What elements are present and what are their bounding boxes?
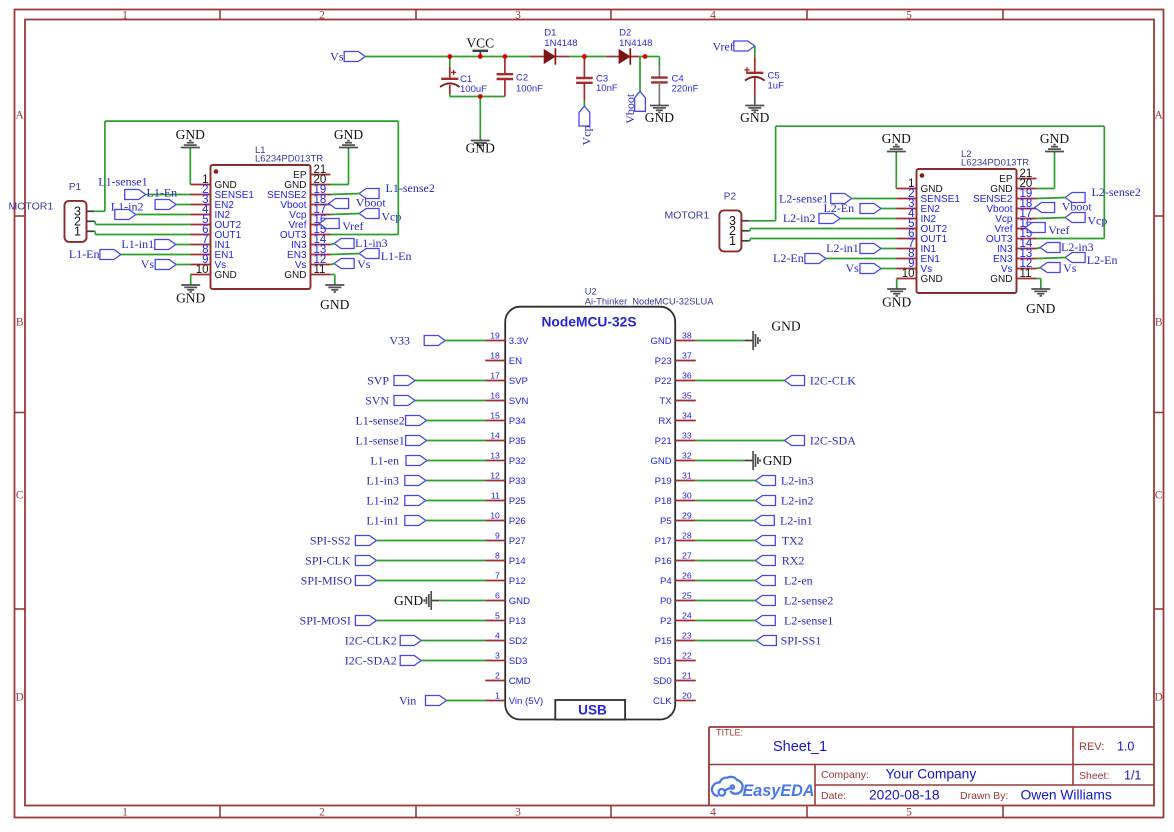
svg-text:Vboot: Vboot	[623, 93, 637, 124]
svg-text:Vin: Vin	[399, 694, 416, 708]
L1 pin 21 EP	[293, 164, 330, 181]
svg-text:Company:: Company:	[821, 769, 869, 781]
wire C3 node to D2 anode	[584, 56, 605, 58]
wire P1 pin3 riser to top loop	[94, 121, 105, 211]
ground at U2 pin 32	[696, 451, 792, 470]
svg-text:P12: P12	[509, 576, 526, 587]
net flag Vref at L2 pin 16	[1025, 223, 1069, 238]
L1 pin 6 OUT1	[191, 224, 242, 241]
net flag TX2 at U2 pin 28	[696, 534, 804, 548]
svg-text:I2C-CLK2: I2C-CLK2	[345, 634, 397, 648]
svg-text:1N4148: 1N4148	[619, 38, 652, 49]
U2 pin 14 P35	[485, 431, 526, 447]
net flag L2-in2 at L2 pin 4	[783, 211, 897, 225]
U2 pin 8 P14	[485, 551, 526, 567]
net flag L2-in2 at U2 pin 30	[696, 494, 814, 508]
L1 pin 18 Vboot	[280, 194, 330, 211]
L1 pin 7 IN1	[191, 234, 231, 251]
net flag L1-En at L1 pin 8	[69, 247, 191, 261]
title block sheet name Sheet_1	[773, 739, 827, 755]
U2 pin 36 P22	[655, 371, 696, 387]
svg-text:SD0: SD0	[653, 676, 672, 687]
svg-text:GND: GND	[394, 593, 423, 608]
L2 pin 3 EN2	[897, 198, 941, 215]
net flag Vboot	[623, 91, 646, 124]
U2 pin 9 P27	[485, 531, 526, 547]
svg-text:34: 34	[682, 411, 692, 421]
capacitor C2 100nF	[497, 57, 544, 97]
svg-text:Vboot: Vboot	[1062, 200, 1093, 214]
svg-text:U2: U2	[585, 286, 597, 296]
wire D1 cathode to C3 node	[569, 56, 584, 58]
svg-text:3: 3	[515, 10, 521, 22]
svg-text:L2-in1: L2-in1	[826, 241, 859, 255]
svg-text:L2-sense1: L2-sense1	[784, 614, 833, 628]
svg-text:VCC: VCC	[466, 36, 494, 51]
net flag L2-in3 at L2 pin 14	[1037, 240, 1094, 254]
U2 pin 34 RX	[658, 411, 695, 427]
svg-text:TX: TX	[659, 396, 672, 407]
svg-text:Sheet_1: Sheet_1	[773, 739, 827, 755]
wire L1 pin1 to upper ground	[189, 149, 191, 185]
svg-text:L2-sense2: L2-sense2	[1092, 185, 1141, 199]
svg-text:1: 1	[495, 691, 500, 701]
svg-text:USB: USB	[578, 703, 607, 718]
L2 pin 19 SENSE2	[973, 188, 1036, 205]
wire L1 pin20 to upper ground	[331, 149, 349, 185]
svg-text:10: 10	[902, 268, 915, 280]
P1 pin 2	[74, 215, 94, 229]
U2 pin 29 P5	[660, 511, 696, 527]
svg-text:Vs: Vs	[845, 261, 859, 275]
svg-text:1: 1	[729, 234, 736, 248]
wire P2 pin1 to L2 OUT1	[749, 239, 897, 241]
L2 pin 12 Vs	[1001, 258, 1037, 275]
L2 pin 20 GND	[990, 178, 1036, 195]
U2 pin 38 GND	[650, 331, 695, 347]
net flag L2-En at L2 pin 13	[1037, 253, 1118, 268]
title block Date	[821, 788, 940, 803]
ground below C4	[645, 104, 674, 125]
svg-text:13: 13	[490, 451, 500, 461]
svg-text:2: 2	[319, 10, 325, 22]
svg-text:3: 3	[495, 651, 500, 661]
svg-text:P4: P4	[660, 576, 672, 587]
svg-text:Vin (5V): Vin (5V)	[509, 696, 543, 707]
L1 pin 1 GND	[191, 174, 237, 191]
svg-text:GND: GND	[882, 131, 911, 146]
svg-text:L1-En: L1-En	[69, 247, 100, 261]
net flag SPI-CLK at U2 pin 8	[305, 554, 485, 568]
svg-text:L1-in2: L1-in2	[366, 494, 399, 508]
ground below L1 pin 11	[320, 284, 349, 313]
svg-text:L2-En: L2-En	[1087, 253, 1118, 267]
svg-text:9: 9	[495, 531, 500, 541]
wire P1 pin1 to L1 OUT1	[94, 231, 191, 234]
svg-text:1: 1	[122, 10, 128, 22]
svg-text:10: 10	[196, 264, 209, 276]
svg-text:1/1: 1/1	[1124, 769, 1141, 783]
svg-text:L2-sense1: L2-sense1	[779, 192, 828, 206]
svg-text:GND: GND	[466, 141, 495, 156]
L1 pin 10 GND	[191, 264, 237, 281]
svg-text:L1-sense2: L1-sense2	[386, 181, 435, 195]
svg-text:1.0: 1.0	[1117, 740, 1134, 754]
wire L1 pin11 to lower ground	[331, 275, 335, 284]
svg-text:10: 10	[490, 511, 500, 521]
svg-text:A: A	[1155, 110, 1164, 122]
L1 pin 3 EN2	[191, 194, 235, 211]
L2 pin 13 EN3	[993, 248, 1036, 265]
svg-text:30: 30	[682, 491, 692, 501]
svg-text:TITLE:: TITLE:	[716, 728, 743, 738]
svg-text:A: A	[16, 110, 25, 122]
svg-text:L1-in1: L1-in1	[121, 237, 154, 251]
svg-text:6: 6	[495, 591, 500, 601]
svg-text:D: D	[16, 692, 24, 704]
svg-text:L1-En: L1-En	[147, 186, 178, 200]
L2 pin 18 Vboot	[986, 198, 1036, 215]
wire L2 pin1 to upper ground	[895, 153, 897, 189]
U2 pin 1 Vin (5V)	[485, 691, 543, 707]
svg-text:L2-in3: L2-in3	[781, 474, 814, 488]
svg-text:26: 26	[682, 571, 692, 581]
svg-text:D2: D2	[619, 28, 631, 39]
title block Company	[821, 767, 976, 782]
L2 pin 10 GND	[897, 268, 943, 285]
title block	[709, 727, 1154, 806]
svg-text:Sheet:: Sheet:	[1079, 770, 1109, 782]
svg-text:P25: P25	[509, 496, 526, 507]
net flag Vref (top)	[713, 40, 755, 54]
svg-text:L2-En: L2-En	[773, 251, 804, 265]
svg-text:19: 19	[490, 331, 500, 341]
L1 pin 11 GND	[284, 264, 330, 281]
svg-text:MOTOR1: MOTOR1	[665, 210, 710, 222]
net flag L1-En at L1 pin 3	[147, 186, 191, 210]
svg-text:36: 36	[682, 371, 692, 381]
U2 pin 4 SD2	[485, 631, 527, 647]
svg-text:P26: P26	[509, 516, 526, 527]
U2 pin 7 P12	[485, 571, 526, 587]
svg-text:4: 4	[710, 10, 716, 22]
driver IC L2 L6234PD013TR body	[917, 149, 1030, 293]
U2 pin 11 P25	[485, 491, 526, 507]
svg-text:5: 5	[495, 611, 500, 621]
svg-text:MOTOR1: MOTOR1	[9, 201, 54, 213]
svg-text:P18: P18	[655, 496, 672, 507]
U2 pin 27 P16	[655, 551, 696, 567]
svg-text:GND: GND	[176, 127, 205, 142]
P2 pin 2	[729, 224, 749, 238]
svg-text:L1-en: L1-en	[370, 454, 399, 468]
svg-text:Owen Williams: Owen Williams	[1021, 788, 1112, 803]
svg-text:5: 5	[906, 10, 912, 22]
junction at Vs/C1 node	[447, 54, 452, 59]
svg-text:17: 17	[490, 371, 500, 381]
svg-text:D: D	[1155, 692, 1163, 704]
net flag Vboot at L1 pin 18	[329, 196, 387, 210]
svg-text:2: 2	[495, 671, 500, 681]
svg-text:23: 23	[682, 631, 692, 641]
L2 pin 5 OUT2	[897, 218, 948, 235]
svg-text:1N4148: 1N4148	[544, 38, 577, 49]
svg-text:P19: P19	[655, 476, 672, 487]
svg-text:Vs: Vs	[330, 50, 344, 64]
net flag L1-in3 at U2 pin 12	[366, 474, 485, 488]
svg-text:100nF: 100nF	[516, 84, 543, 95]
svg-text:P22: P22	[655, 376, 672, 387]
wire P2 pin2 to L2 OUT2	[749, 229, 897, 231]
svg-text:P33: P33	[509, 476, 526, 487]
net flag L1-En at L1 pin 13	[331, 249, 412, 264]
net flag L2-sense1 at U2 pin 24	[696, 614, 834, 628]
net flag Vs at L2 pin 12	[1037, 261, 1077, 275]
U2 pin 26 P4	[660, 571, 696, 587]
svg-text:37: 37	[682, 351, 692, 361]
svg-text:GND: GND	[921, 274, 943, 285]
driver IC L1 L6234PD013TR body	[211, 145, 324, 289]
U2 pin 16 SVN	[485, 391, 528, 407]
svg-text:16: 16	[490, 391, 500, 401]
svg-text:GND: GND	[284, 270, 306, 281]
net flag SPI-SS1 at U2 pin 23	[696, 634, 821, 648]
svg-text:22: 22	[682, 651, 692, 661]
svg-text:2: 2	[319, 807, 325, 819]
ground below L2 pin 10	[882, 288, 911, 310]
wire ground node down	[479, 97, 481, 140]
svg-text:REV:: REV:	[1079, 741, 1104, 753]
svg-text:P13: P13	[509, 616, 526, 627]
svg-text:P0: P0	[660, 596, 672, 607]
ground below C5	[740, 104, 769, 125]
svg-text:GND: GND	[320, 297, 349, 312]
svg-text:11: 11	[1020, 268, 1032, 280]
wire L2 pin20 to upper ground	[1037, 153, 1055, 189]
net flag Vs at L1 pin 12	[331, 257, 371, 271]
svg-text:12: 12	[490, 471, 500, 481]
svg-text:L2-in2: L2-in2	[781, 494, 814, 508]
L2 pin 9 Vs	[897, 258, 933, 275]
U2 pin 19 3.3V	[485, 331, 529, 347]
L1 pin 16 Vref	[289, 214, 331, 231]
svg-text:21: 21	[682, 671, 692, 681]
svg-text:11: 11	[491, 491, 500, 501]
svg-text:24: 24	[682, 611, 692, 621]
svg-text:L2-in2: L2-in2	[783, 211, 816, 225]
connector P1	[65, 182, 87, 242]
U2 pin 2 CMD	[485, 671, 530, 687]
svg-text:7: 7	[495, 571, 500, 581]
svg-text:P32: P32	[509, 456, 526, 467]
svg-text:L1-sense1: L1-sense1	[355, 434, 404, 448]
svg-text:3.3V: 3.3V	[509, 336, 529, 347]
svg-text:C2: C2	[516, 72, 528, 83]
svg-text:GND: GND	[1026, 301, 1055, 316]
svg-text:GND: GND	[990, 274, 1012, 285]
svg-text:Ai-Thinker_NodeMCU-32SLUA: Ai-Thinker_NodeMCU-32SLUA	[585, 296, 714, 306]
svg-text:B: B	[1155, 317, 1163, 329]
svg-text:SVN: SVN	[509, 396, 529, 407]
wire P1 pin2 to L1 OUT2	[94, 221, 191, 224]
svg-text:L2-sense2: L2-sense2	[784, 594, 833, 608]
svg-text:GND: GND	[650, 336, 671, 347]
net flag I2C-CLK at U2 pin 36	[696, 374, 856, 388]
svg-text:CLK: CLK	[653, 696, 672, 707]
svg-text:Drawn By:: Drawn By:	[960, 790, 1008, 802]
svg-text:P35: P35	[509, 436, 526, 447]
ground above L1 pin 1	[176, 127, 205, 149]
U2 pin 15 P34	[485, 411, 526, 427]
L1 pin 8 EN1	[191, 244, 235, 261]
L2 pin 7 IN1	[897, 238, 937, 255]
module U2 Ai-Thinker_NodeMCU-32SLUA body	[505, 286, 714, 719]
svg-text:Vref: Vref	[1048, 223, 1069, 237]
svg-text:Vs: Vs	[357, 257, 371, 271]
svg-text:C: C	[16, 490, 24, 502]
net flag L2-sense2 at L2 pin 19	[1037, 185, 1141, 203]
connector P2	[719, 191, 741, 251]
svg-text:28: 28	[682, 531, 692, 541]
svg-text:Vs: Vs	[1063, 261, 1077, 275]
L1 pin 20 GND	[284, 174, 330, 191]
svg-text:SPI-SS1: SPI-SS1	[781, 634, 822, 648]
svg-text:1: 1	[74, 225, 81, 239]
svg-text:220nF: 220nF	[672, 84, 699, 95]
net flag SPI-MOSI at U2 pin 5	[300, 614, 486, 628]
wire P2 pin3 riser to top loop	[749, 126, 776, 221]
L1 pin 13 EN3	[287, 244, 330, 261]
svg-text:8: 8	[495, 551, 500, 561]
ground above L1 pin 20	[334, 127, 363, 149]
net flag SVN at U2 pin 16	[365, 394, 485, 408]
U2 pin 24 P2	[660, 611, 696, 627]
P1 pin 1	[74, 225, 94, 239]
net flag Vboot at L2 pin 18	[1035, 200, 1093, 214]
svg-text:L2-in1: L2-in1	[780, 514, 813, 528]
net flag Vin at U2 pin 1	[399, 694, 485, 708]
svg-text:SPI-MOSI: SPI-MOSI	[300, 614, 351, 628]
net flag I2C-SDA2 at U2 pin 3	[345, 654, 485, 668]
wire C2 node to D1 anode	[505, 56, 531, 58]
diode D2 1N4148	[606, 28, 653, 65]
wire L2 pin10 to lower ground	[896, 279, 898, 288]
wire L1 pin10 to lower ground	[190, 275, 192, 284]
svg-text:GND: GND	[215, 270, 237, 281]
wire top loop to L2 OUT3	[776, 126, 1105, 238]
L2 pin 6 OUT1	[897, 228, 948, 245]
net flag Vs at L1 pin 9	[141, 257, 191, 271]
svg-text:P21: P21	[655, 436, 672, 447]
svg-text:L1-in1: L1-in1	[366, 514, 399, 528]
svg-text:SD2: SD2	[509, 636, 528, 647]
svg-text:RX: RX	[658, 416, 672, 427]
svg-text:25: 25	[682, 591, 692, 601]
svg-text:100uF: 100uF	[460, 84, 487, 95]
wire Vboot node to C4	[645, 57, 659, 67]
wire Vs rail to VCC node	[365, 56, 450, 58]
title block REV	[1079, 740, 1134, 754]
U2 pin 22 SD1	[653, 651, 696, 667]
net flag L2-En at L2 pin 3	[823, 201, 896, 215]
L2 pin 8 EN1	[897, 248, 941, 265]
U2 pin 12 P33	[485, 471, 526, 487]
svg-text:Vref: Vref	[713, 40, 734, 54]
U2 pin 32 GND	[650, 451, 695, 467]
svg-text:P23: P23	[655, 356, 672, 367]
ground above L2 pin 1	[882, 131, 911, 153]
svg-text:L1-En: L1-En	[381, 249, 412, 263]
svg-text:SD3: SD3	[509, 656, 528, 667]
svg-text:15: 15	[490, 411, 500, 421]
U2 pin 37 P23	[655, 351, 696, 367]
net flag L2-sense2 at U2 pin 25	[696, 594, 834, 608]
capacitor C3 10nF	[576, 57, 618, 107]
junction at C3/Vcp node	[582, 54, 587, 59]
ground at U2 pin 6	[394, 591, 485, 610]
diode D1 1N4148	[531, 28, 578, 65]
L1 pin 2 SENSE1	[191, 184, 255, 201]
L2 pin 4 IN2	[897, 208, 937, 225]
svg-text:P14: P14	[509, 556, 527, 567]
L1 pin 19 SENSE2	[267, 184, 330, 201]
power symbol VCC	[466, 36, 494, 57]
net flag RX2 at U2 pin 27	[696, 554, 805, 568]
P2 pin 3	[729, 214, 749, 228]
svg-text:P17: P17	[655, 536, 672, 547]
svg-text:GND: GND	[763, 453, 792, 468]
svg-text:3: 3	[515, 807, 521, 819]
L2 pin 16 Vref	[995, 218, 1037, 235]
U2 pin 35 TX	[659, 391, 695, 407]
net flag L1-in2 at L1 pin 4	[111, 200, 191, 220]
U2 pin 13 P32	[485, 451, 526, 467]
svg-text:NodeMCU-32S: NodeMCU-32S	[541, 315, 636, 330]
svg-text:I2C-SDA2: I2C-SDA2	[345, 654, 397, 668]
svg-text:32: 32	[682, 451, 692, 461]
svg-text:Your Company: Your Company	[886, 767, 977, 782]
svg-text:SD1: SD1	[653, 656, 672, 667]
net flag L1-sense2 at L1 pin 19	[331, 181, 435, 199]
svg-text:SVN: SVN	[365, 394, 389, 408]
svg-text:P2: P2	[724, 191, 737, 202]
ground below L2 pin 11	[1026, 288, 1055, 317]
ground above L2 pin 20	[1040, 131, 1069, 153]
svg-text:4: 4	[495, 631, 500, 641]
U2 pin 25 P0	[660, 591, 696, 607]
svg-text:I2C-CLK: I2C-CLK	[810, 374, 856, 388]
svg-text:SVP: SVP	[509, 376, 528, 387]
L2 pin 21 EP	[999, 168, 1036, 185]
ground below L1 pin 10	[176, 284, 205, 306]
capacitor C4 220nF	[651, 66, 699, 104]
U2 pin 23 P15	[655, 631, 696, 647]
svg-text:Vboot: Vboot	[356, 196, 387, 210]
U2 pin 3 SD3	[485, 651, 527, 667]
capacitor C1 100uF polarized	[440, 57, 487, 97]
L1 pin 15 OUT3	[280, 224, 331, 241]
wire Vboot node down to flag	[639, 57, 646, 92]
svg-text:31: 31	[682, 471, 692, 481]
svg-text:38: 38	[682, 331, 692, 341]
svg-text:Date:: Date:	[821, 790, 846, 802]
U2 pin 31 P19	[655, 471, 696, 487]
EasyEDA logo	[712, 777, 815, 800]
junction at Vboot node	[643, 54, 648, 59]
U2 pin 30 P18	[655, 491, 696, 507]
svg-text:20: 20	[682, 691, 692, 701]
MOTOR1 net label near P1	[9, 201, 54, 213]
